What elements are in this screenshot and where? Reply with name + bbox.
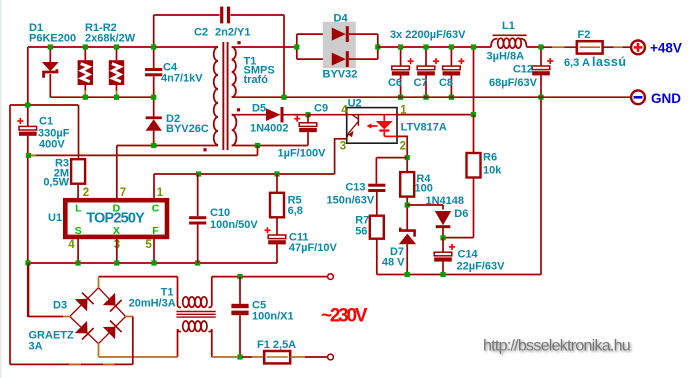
svg-text:S: S [75, 225, 82, 237]
svg-text:0,5W: 0,5W [43, 176, 69, 188]
svg-text:L1: L1 [502, 20, 515, 32]
svg-text:4n7/1kV: 4n7/1kV [161, 73, 203, 85]
svg-text:20mH/3A: 20mH/3A [129, 297, 176, 309]
svg-text:C13: C13 [345, 181, 365, 193]
svg-text:P6KE200: P6KE200 [29, 32, 76, 44]
svg-text:2: 2 [400, 140, 406, 152]
svg-text:47µF/10V: 47µF/10V [289, 242, 338, 254]
svg-text:F2: F2 [578, 29, 591, 41]
svg-text:1µF/100V: 1µF/100V [278, 147, 327, 159]
svg-text:C8: C8 [439, 77, 453, 89]
svg-text:2n2/Y1: 2n2/Y1 [215, 26, 250, 38]
svg-text:L: L [75, 203, 82, 215]
svg-text:C10: C10 [210, 207, 230, 219]
svg-text:lassú: lassú [592, 55, 626, 69]
svg-text:7: 7 [120, 187, 126, 199]
svg-text:3A: 3A [29, 341, 43, 353]
svg-text:5: 5 [145, 239, 152, 251]
svg-text:4: 4 [68, 239, 75, 251]
svg-text:100: 100 [415, 182, 433, 194]
svg-text:BYV32: BYV32 [323, 68, 358, 80]
svg-text:6,3 A: 6,3 A [564, 57, 590, 69]
svg-text:6,8: 6,8 [288, 205, 303, 217]
svg-text:10k: 10k [483, 164, 502, 176]
svg-text:1: 1 [157, 187, 164, 199]
svg-text:100n/X1: 100n/X1 [252, 310, 294, 322]
svg-text:1N4148: 1N4148 [426, 195, 465, 207]
svg-text:U2: U2 [348, 98, 362, 110]
svg-text:2: 2 [83, 187, 89, 199]
svg-text:U1: U1 [48, 212, 62, 224]
svg-text:2x68k/2W: 2x68k/2W [85, 32, 136, 44]
svg-text:C7: C7 [413, 77, 427, 89]
svg-text:F1 2,5A: F1 2,5A [257, 339, 296, 351]
svg-text:150n/63V: 150n/63V [327, 194, 375, 206]
svg-text:+48V: +48V [650, 40, 682, 55]
svg-text:400V: 400V [39, 139, 65, 151]
svg-text:3x 2200µF/63V: 3x 2200µF/63V [390, 29, 466, 41]
svg-text:C9: C9 [314, 102, 328, 114]
svg-text:D6: D6 [454, 208, 468, 220]
svg-text:3: 3 [340, 140, 346, 152]
svg-text:C2: C2 [194, 26, 208, 38]
svg-text:GND: GND [651, 91, 681, 106]
svg-text:F: F [152, 225, 159, 237]
svg-text:56: 56 [355, 225, 367, 237]
svg-text:GRAETZ: GRAETZ [29, 329, 75, 341]
svg-text:http://bsselektronika.hu: http://bsselektronika.hu [483, 338, 631, 355]
svg-text:C: C [152, 203, 160, 215]
svg-text:C1: C1 [39, 116, 53, 128]
svg-text:100n/50V: 100n/50V [210, 219, 258, 231]
svg-text:C6: C6 [388, 77, 402, 89]
svg-text:LTV817A: LTV817A [401, 121, 447, 133]
svg-text:R6: R6 [483, 151, 497, 163]
svg-text:48 V: 48 V [382, 257, 405, 269]
svg-text:BYV26C: BYV26C [166, 123, 209, 135]
svg-text:68µF/63V: 68µF/63V [489, 77, 538, 89]
svg-text:C12: C12 [513, 64, 533, 76]
svg-text:4: 4 [341, 104, 348, 116]
svg-text:X: X [113, 225, 120, 237]
svg-text:D5: D5 [252, 102, 266, 114]
svg-text:3µH/8A: 3µH/8A [487, 51, 525, 63]
svg-text:C14: C14 [458, 249, 479, 261]
svg-text:~230V: ~230V [321, 306, 368, 327]
svg-text:1N4002: 1N4002 [250, 122, 289, 134]
svg-text:D: D [113, 203, 121, 215]
svg-text:trafó: trafó [244, 74, 269, 86]
svg-text:D3: D3 [53, 300, 67, 312]
svg-text:D4: D4 [334, 13, 349, 25]
svg-text:22µF/63V: 22µF/63V [457, 260, 506, 272]
